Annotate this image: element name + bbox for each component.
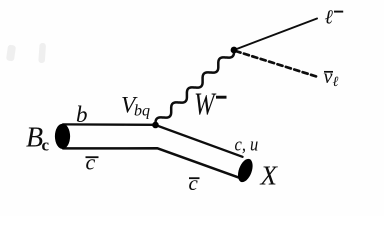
- svg-text:bq: bq: [134, 103, 150, 120]
- svg-text:ν: ν: [324, 66, 333, 88]
- svg-text:b: b: [76, 102, 88, 127]
- svg-text:c: c: [86, 149, 96, 174]
- svg-text:ℓ: ℓ: [333, 75, 339, 90]
- svg-text:c: c: [42, 136, 50, 155]
- svg-text:c, u: c, u: [235, 134, 259, 155]
- svg-text:c: c: [189, 171, 199, 195]
- svg-text:W: W: [194, 86, 217, 122]
- svg-text:ℓ: ℓ: [325, 6, 334, 28]
- svg-text:X: X: [260, 160, 279, 190]
